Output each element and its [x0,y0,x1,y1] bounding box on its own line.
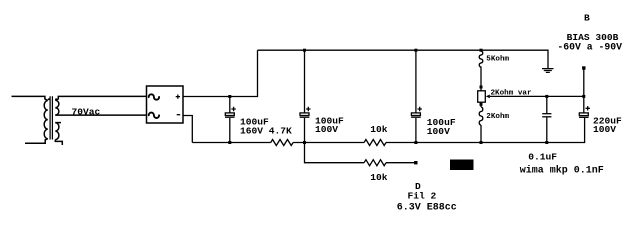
junction top rail 5Kohm [480,49,483,52]
capacitor C5 plus sign [586,106,590,110]
svg-text:10k: 10k [370,124,388,135]
rectifier AC symbol top [149,94,159,99]
capacitor C3 bottom lead [415,118,417,143]
capacitor C2 top plate [300,113,309,116]
junction bottom rail 2Kohm [480,141,483,144]
ground symbol [542,69,554,73]
wire primary bottom [25,139,48,144]
junction bottom rail C4 [545,141,548,144]
junction top rail cap2 [303,49,306,52]
wire primary top [12,96,48,100]
wire secondary bottom to rectifier [55,114,146,116]
wire rectifier minus output [183,116,192,143]
bridge rectifier BR1 [147,86,184,123]
capacitor C5 220uF top lead [583,96,585,113]
wire lower branch to filament terminal [305,143,365,163]
wire wiper output [490,95,584,97]
svg-text:100V: 100V [427,126,450,137]
transformer phasing dot primary [48,98,50,100]
capacitor C4 bottom lead [546,118,548,143]
svg-text:5Kohm: 5Kohm [486,55,509,63]
capacitor C3 100uF 100V top lead [415,50,417,113]
wire terminal B down [583,70,585,97]
capacitor C3 top plate [411,113,420,116]
svg-text:B: B [584,12,590,23]
wire 5Kohm to pot [480,67,482,91]
resistor 10k lower [364,160,386,166]
transformer phasing dot secondary [55,98,57,100]
capacitor C1 bottom plate [225,116,235,118]
resistor 5Kohm lead top [480,49,482,52]
resistor 2Kohm [479,107,483,125]
capacitor C5 top plate [579,113,588,116]
transformer T1 core [50,96,52,139]
junction pot top [480,86,483,89]
transformer T1 primary winding [44,101,48,139]
capacitor C2 plus sign [306,107,310,111]
capacitor C2 100uF 100V top lead [304,50,306,113]
svg-text:wima mkp 0.1nF: wima mkp 0.1nF [520,164,604,176]
wire bottom rail segment 2 [293,142,364,144]
capacitor C1 plus sign [231,107,235,111]
wire secondary top to rectifier [55,96,146,100]
svg-text:10k: 10k [370,172,388,183]
resistor 10k upper [364,140,386,146]
capacitor C2 bottom plate [300,116,310,118]
svg-text:100V: 100V [593,124,616,135]
capacitor C1 100uF 160V top lead [229,97,231,113]
black label box [450,160,474,171]
junction wiper wire C5 [582,95,585,98]
capacitor C1 bottom lead [229,118,231,143]
junction pot bottom [480,103,483,106]
svg-text:6.3V E88cc: 6.3V E88cc [397,202,457,213]
terminal B square [582,66,585,69]
capacitor C4 bottom plate [542,116,551,118]
capacitor C1 top plate [225,113,234,116]
svg-text:-60V a -90V: -60V a -90V [557,42,622,53]
wire to terminal D [386,162,416,164]
capacitor C4 0.1uF top lead [546,96,548,113]
svg-text:0.1uF: 0.1uF [528,152,557,163]
svg-text:Fil 2: Fil 2 [408,191,437,202]
rectifier minus pin [177,114,181,116]
junction top rail cap3 [414,49,417,52]
wire filament bottom stub [55,140,62,145]
capacitor C2 bottom lead [304,118,306,143]
svg-text:100V: 100V [315,124,338,135]
capacitor C3 bottom plate [411,116,421,118]
junction rectifier plus cap1 [228,95,231,98]
potentiometer 2Kohm var body [478,91,486,102]
junction wiper wire C4 [545,95,548,98]
rectifier plus pin [176,95,180,99]
wire 2Kohm to bottom rail [480,125,482,143]
wire top rail [258,50,549,68]
wire pot to 2Kohm [480,102,482,107]
junction bottom rail cap2 [303,141,306,144]
wire bottom rail segment 3 [386,118,585,143]
junction bottom rail cap1 [228,141,231,144]
capacitor C4 top plate [542,113,551,115]
capacitor C5 bottom plate [579,116,589,118]
resistor 5Kohm [479,51,483,67]
rectifier AC symbol bottom [149,113,159,118]
wire rectifier plus output [183,50,258,96]
capacitor C3 plus sign [418,107,422,111]
wire filament tap stub [55,122,61,124]
resistor 4.7K [271,140,293,146]
svg-text:160V 4.7K: 160V 4.7K [240,125,292,136]
transformer T1 secondary winding 70Vac [55,100,59,115]
junction bottom rail cap3 [414,141,417,144]
potentiometer wiper arrow [486,95,490,99]
svg-text:70Vac: 70Vac [72,107,101,118]
terminal D square [414,161,417,164]
wire bottom rail segment 1 [192,142,270,144]
transformer T1 filament winding [55,123,59,140]
svg-text:2Kohm: 2Kohm [486,113,509,121]
